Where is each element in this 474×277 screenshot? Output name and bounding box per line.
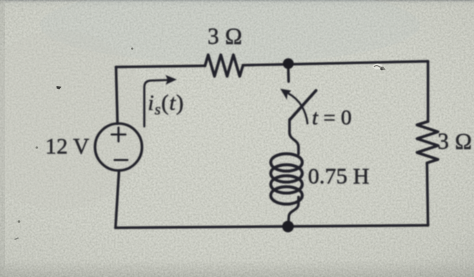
wire right vertical lower (427, 164, 428, 226)
wire top-left horizontal (116, 66, 205, 67)
switch SW1 blade (290, 91, 316, 120)
wire switch pivot to inductor top lead (290, 120, 299, 155)
plus sign (112, 128, 126, 142)
minus sign (115, 159, 128, 161)
wire source bottom to bottom-left corner (116, 171, 120, 228)
current arrow is(t) (144, 80, 168, 127)
svg-text:3 Ω: 3 Ω (438, 129, 473, 154)
wire bottom horizontal (116, 225, 429, 228)
arrowhead of switch arc (280, 89, 291, 100)
voltage source V1 12V circle (95, 124, 142, 171)
inductor L1 coil turn 3 (271, 176, 303, 193)
inductor bottom lead (288, 197, 298, 223)
photo artifact dot left of 12V (36, 146, 38, 148)
resistor R1 3ohm top zigzag (205, 55, 243, 77)
resistor R2 3ohm right zigzag (417, 122, 438, 163)
photo artifact fleck mid-left (18, 220, 21, 223)
svg-text:3 Ω: 3 Ω (208, 24, 243, 49)
arrowhead of is(t) (166, 75, 177, 85)
photo artifact scratch bottom-left (15, 238, 19, 240)
inductor L1 coil turn 4 (271, 187, 303, 204)
wire right vertical upper (427, 61, 430, 121)
wire left vertical to source (116, 67, 118, 124)
svg-text:0.75 H: 0.75 H (308, 164, 369, 189)
wire resistor to top node (243, 63, 288, 66)
inductor L1 coil turn 2 (271, 165, 303, 182)
photo artifact fleck above source (131, 48, 133, 50)
photo artifact smudge on right wire area (373, 64, 383, 70)
node A top junction dot (283, 58, 294, 69)
switch opening arc (289, 94, 308, 124)
svg-text:12 V: 12 V (45, 133, 89, 158)
inductor L1 coil turn 1 (271, 154, 303, 171)
svg-text:t = 0: t = 0 (312, 105, 352, 129)
wire top node to top-right corner (288, 61, 428, 64)
photo artifact fleck near 12V (57, 86, 62, 89)
wire stub below top node (switch fixed contact) (287, 68, 290, 82)
node B bottom junction dot (282, 221, 294, 233)
svg-text:is(t): is(t) (148, 90, 184, 119)
